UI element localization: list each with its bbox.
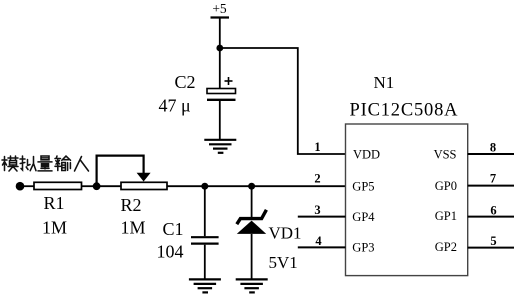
pin 5 stub xyxy=(468,247,514,249)
svg-text:1M: 1M xyxy=(42,218,67,238)
pin 6 stub xyxy=(468,216,514,218)
svg-text:GP3: GP3 xyxy=(352,240,374,254)
label analog input (drawn CJK) xyxy=(2,156,89,171)
char liang xyxy=(38,156,52,171)
svg-text:GP5: GP5 xyxy=(352,180,374,194)
svg-text:2: 2 xyxy=(314,172,320,186)
svg-text:6: 6 xyxy=(490,204,496,218)
wire +5 to C2 xyxy=(219,19,221,90)
char ru xyxy=(75,157,89,172)
pin 8 stub xyxy=(468,153,514,155)
svg-text:5: 5 xyxy=(490,234,496,248)
svg-text:7: 7 xyxy=(490,172,496,186)
svg-text:1: 1 xyxy=(314,140,320,154)
wire input to R1 xyxy=(20,185,34,187)
svg-text:104: 104 xyxy=(157,242,184,262)
svg-text:+5: +5 xyxy=(212,1,227,16)
svg-text:R2: R2 xyxy=(121,195,142,215)
wire main rail to pin 2 xyxy=(167,185,346,187)
R2 wiper arrow xyxy=(137,173,151,182)
wire C2 to ground xyxy=(219,101,221,140)
node input terminal xyxy=(16,182,25,191)
zener diode VD1 xyxy=(237,186,267,279)
node junction +5 rail xyxy=(216,45,223,52)
pin 4 stub xyxy=(298,246,346,248)
op IC N1 box xyxy=(346,124,468,276)
wire to pin 1 xyxy=(220,48,346,154)
svg-text:VD1: VD1 xyxy=(269,224,302,243)
svg-text:47 μ: 47 μ xyxy=(159,96,191,116)
wire node to R2 xyxy=(97,185,121,187)
pin 7 stub xyxy=(468,185,514,187)
svg-text:GP2: GP2 xyxy=(435,240,457,254)
svg-text:GP4: GP4 xyxy=(352,210,375,224)
capacitor C1 xyxy=(191,186,219,279)
svg-text:C1: C1 xyxy=(163,219,184,239)
svg-text:1M: 1M xyxy=(121,218,146,238)
svg-text:5V1: 5V1 xyxy=(269,253,298,272)
pin 3 stub xyxy=(298,216,346,218)
R2 wiper wire xyxy=(97,156,144,186)
node junction C1 xyxy=(201,183,208,190)
svg-text:VSS: VSS xyxy=(434,147,457,161)
svg-text:4: 4 xyxy=(315,234,322,248)
wire R1 to node xyxy=(82,185,97,187)
node junction R1/R2 xyxy=(93,182,101,190)
node junction VD1 xyxy=(248,183,255,190)
ground (C1) xyxy=(189,279,221,292)
svg-text:GP1: GP1 xyxy=(435,209,457,223)
capacitor C2 xyxy=(207,77,236,100)
svg-text:C2: C2 xyxy=(175,72,196,92)
svg-text:N1: N1 xyxy=(374,73,395,92)
ground (VD1) xyxy=(236,279,268,292)
svg-text:3: 3 xyxy=(314,203,320,217)
potentiometer R2 xyxy=(121,182,167,189)
char shu xyxy=(55,156,71,171)
svg-text:8: 8 xyxy=(490,141,496,155)
ground (C2) xyxy=(204,140,236,153)
svg-text:GP0: GP0 xyxy=(435,179,457,193)
svg-text:R1: R1 xyxy=(44,193,65,213)
power +5 xyxy=(211,16,230,18)
resistor R1 xyxy=(34,182,82,189)
svg-text:PIC12C508A: PIC12C508A xyxy=(350,101,459,121)
char mo xyxy=(2,156,18,171)
char ni xyxy=(20,156,36,171)
svg-text:VDD: VDD xyxy=(353,147,380,161)
